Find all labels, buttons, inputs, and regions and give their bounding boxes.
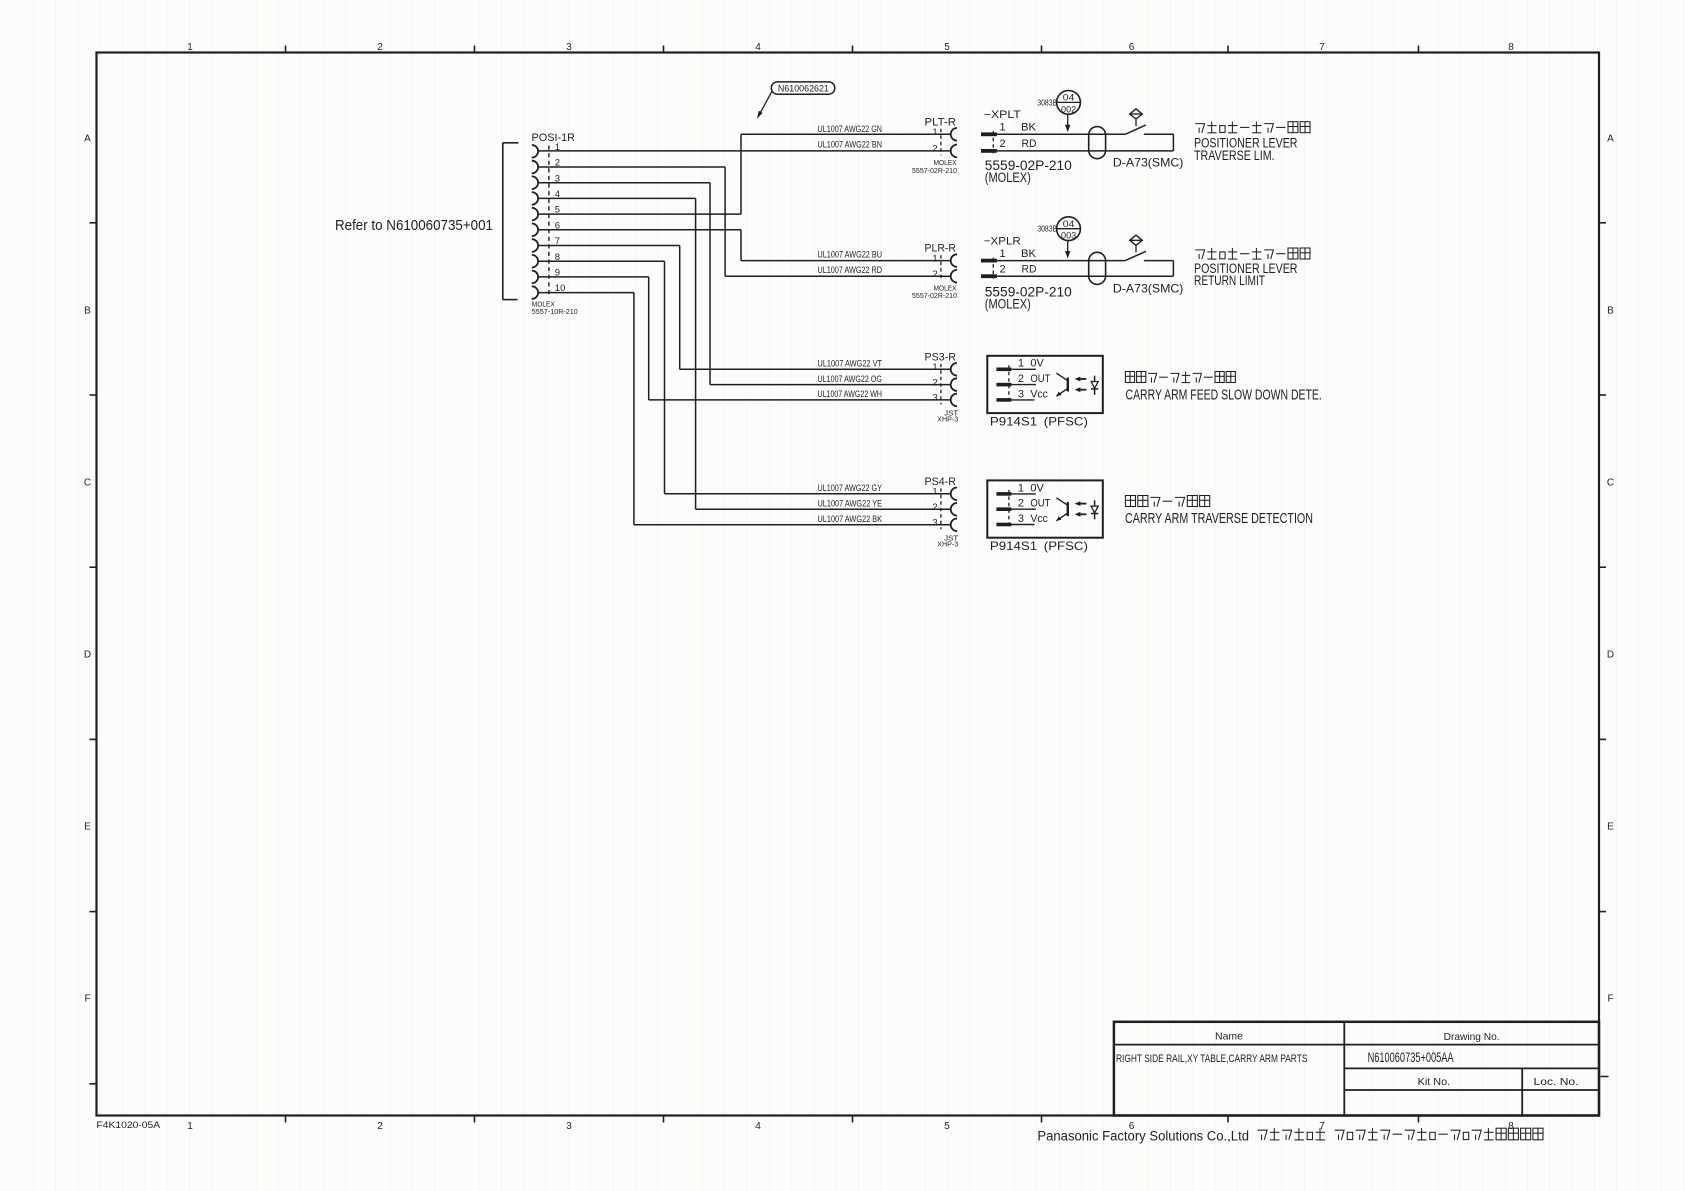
wire GN row to PLT-R pin1: [741, 133, 951, 135]
svg-text:−XPLT: −XPLT: [984, 109, 1021, 121]
sensor box outline: [987, 356, 1103, 413]
light arrows: [1075, 377, 1087, 393]
svg-text:F: F: [84, 994, 90, 1005]
wire OG row to PS3-R pin2: [710, 384, 951, 386]
svg-text:5: 5: [944, 42, 950, 53]
svg-text:XHP-3: XHP-3: [937, 417, 958, 424]
wire vertical pin2 to RD row: [724, 167, 726, 276]
wire vertical pin7 to VT row: [679, 246, 681, 370]
svg-text:TRAVERSE LIM.: TRAVERSE LIM.: [1194, 148, 1275, 163]
svg-text:B: B: [84, 306, 91, 317]
svg-text:(PFSC): (PFSC): [1044, 415, 1088, 429]
svg-text:4: 4: [755, 1121, 761, 1132]
−XPLT cable grommet oval: [1089, 127, 1106, 159]
svg-text:(PFSC): (PFSC): [1044, 539, 1088, 553]
connector PS4-R pin 2 contact: [951, 503, 957, 516]
svg-text:04: 04: [1063, 219, 1075, 230]
sensor pin labels 1 0V / 2 OUT / 3 Vcc: [1018, 482, 1051, 525]
−XPLR switch fixed side wire: [1144, 260, 1174, 262]
svg-text:Vcc: Vcc: [1030, 388, 1048, 400]
svg-text:PS3-R: PS3-R: [925, 351, 957, 363]
svg-text:A: A: [84, 134, 91, 145]
wire WH row to PS3-R pin3: [649, 399, 951, 401]
wire BU row to PLR-R pin1: [741, 260, 951, 262]
POSI-1R pin 1 contact: [532, 145, 538, 158]
svg-text:4: 4: [755, 42, 761, 53]
svg-text:3: 3: [1018, 388, 1024, 400]
svg-text:E: E: [84, 822, 91, 833]
svg-text:F: F: [1607, 994, 1613, 1005]
callout leader arrow: [760, 92, 772, 115]
svg-text:3: 3: [566, 1121, 572, 1132]
POSI-1R pin 7 contact: [532, 239, 538, 252]
connector PS4-R dashed line: [940, 488, 942, 529]
svg-text:F4K1020-05A: F4K1020-05A: [96, 1120, 160, 1130]
label carry arm feed slow down detection (Japanese): [1125, 371, 1235, 382]
label positioner lever traverse limit (Japanese): [1195, 122, 1310, 133]
svg-text:2: 2: [377, 42, 383, 53]
svg-text:P914S1: P914S1: [990, 415, 1038, 429]
svg-text:2: 2: [932, 144, 937, 155]
svg-text:N610062621: N610062621: [778, 84, 829, 95]
wire POSI pin4 stub: [538, 197, 696, 199]
svg-text:MOLEX: MOLEX: [934, 286, 957, 293]
svg-text:D: D: [84, 650, 91, 661]
svg-text:1: 1: [1000, 122, 1006, 134]
−XPLR switch contact lever: [1125, 251, 1146, 260]
phototransistor: [1056, 498, 1067, 521]
−XPLT pin labels 1 BK / 2 RD: [1000, 122, 1037, 151]
−XPLT balloon arrow: [1067, 114, 1069, 126]
svg-text:CARRY ARM FEED SLOW DOWN DETE.: CARRY ARM FEED SLOW DOWN DETE.: [1126, 388, 1322, 404]
−XPLT pin 2 male bar: [981, 149, 997, 153]
connector PLT-R pin 1 contact: [951, 128, 957, 141]
svg-text:UL1007 AWG22 RD: UL1007 AWG22 RD: [818, 265, 883, 275]
svg-text:Kit No.: Kit No.: [1418, 1076, 1451, 1088]
svg-text:04: 04: [1063, 93, 1075, 104]
svg-text:POSI-1R: POSI-1R: [532, 132, 576, 144]
POSI-1R pin 3 contact: [532, 176, 538, 189]
svg-text:5557-10R-210: 5557-10R-210: [532, 309, 578, 316]
wire YE row to PS4-R pin2: [696, 508, 951, 510]
svg-text:3: 3: [932, 518, 937, 529]
LED: [1091, 376, 1098, 395]
svg-text:D-A73(SMC): D-A73(SMC): [1113, 155, 1184, 169]
POSI-1R pin 6 contact: [532, 224, 538, 237]
−XPLR pin labels 1 BK / 2 RD: [1000, 248, 1037, 276]
svg-text:MOLEX: MOLEX: [532, 302, 555, 309]
−XPLR cable grommet oval: [1089, 252, 1106, 284]
svg-text:(MOLEX): (MOLEX): [985, 296, 1031, 311]
−XPLR pin 1 male bar: [981, 259, 997, 263]
connector PLT-R dashed line: [940, 129, 942, 156]
svg-text:−XPLR: −XPLR: [984, 236, 1021, 248]
connector PS3-R dashed line: [940, 364, 942, 405]
svg-text:RD: RD: [1022, 138, 1037, 150]
column ticks and numbers: [187, 42, 1514, 1132]
svg-text:8: 8: [1508, 42, 1514, 53]
svg-text:6: 6: [1129, 42, 1135, 53]
svg-text:Refer to N610060735+001: Refer to N610060735+001: [335, 217, 493, 234]
LED: [1091, 500, 1098, 519]
svg-text:A: A: [1607, 134, 1614, 145]
svg-text:Vcc: Vcc: [1030, 513, 1048, 525]
−XPLT wire RD: [997, 150, 1174, 152]
wire POSI pin3 stub: [538, 182, 710, 184]
bracket for POSI-1R: [503, 143, 519, 300]
title block outline: [1114, 1022, 1599, 1116]
svg-text:2: 2: [1018, 373, 1024, 385]
svg-text:(MOLEX): (MOLEX): [985, 170, 1031, 185]
svg-text:RETURN LIMIT: RETURN LIMIT: [1194, 273, 1265, 288]
−XPLR wire RD: [997, 275, 1174, 277]
svg-text:P914S1: P914S1: [990, 539, 1038, 553]
svg-text:0V: 0V: [1030, 358, 1044, 370]
svg-text:MOLEX: MOLEX: [934, 160, 957, 167]
light arrows: [1075, 501, 1087, 517]
−XPLT revision balloon 002: [1057, 91, 1081, 115]
wire POSI pin9 stub: [538, 276, 649, 278]
part number callout N610062621: [771, 82, 835, 94]
wire labels UL1007: [818, 124, 883, 524]
svg-text:2: 2: [932, 502, 937, 513]
svg-text:BK: BK: [1021, 248, 1037, 260]
svg-text:C: C: [84, 478, 91, 489]
connector PS4-R pin 3 contact: [951, 519, 957, 532]
svg-text:3083B: 3083B: [1037, 98, 1057, 107]
svg-text:1: 1: [1018, 358, 1024, 370]
title block texts: [0, 0, 1, 1]
svg-text:D-A73(SMC): D-A73(SMC): [1113, 282, 1184, 296]
−XPLT dashed line: [992, 131, 994, 153]
svg-text:CARRY ARM TRAVERSE DETECTION: CARRY ARM TRAVERSE DETECTION: [1125, 511, 1313, 527]
svg-text:UL1007 AWG22 BN: UL1007 AWG22 BN: [818, 140, 883, 150]
sensor pin labels 1 0V / 2 OUT / 3 Vcc: [1018, 358, 1051, 401]
svg-text:1: 1: [932, 127, 937, 138]
wire POSI pin2 stub: [538, 166, 725, 168]
svg-text:PLT-R: PLT-R: [925, 116, 957, 128]
svg-text:BK: BK: [1021, 122, 1037, 134]
svg-text:1: 1: [932, 362, 937, 373]
drawing border frame: [97, 53, 1600, 1116]
svg-text:3083B: 3083B: [1037, 225, 1057, 234]
svg-text:UL1007 AWG22 BK: UL1007 AWG22 BK: [818, 514, 883, 524]
row ticks and letters: [84, 134, 1614, 1084]
−XPLR balloon arrow: [1067, 241, 1069, 253]
connector PS3-R pin 3 contact: [951, 394, 957, 407]
wire POSI pin8 stub: [538, 260, 664, 262]
wire vertical pin9 to WH row: [648, 277, 650, 400]
connector PS3-R pin 1 contact: [951, 363, 957, 376]
wire RD row to PLR-R pin2: [725, 275, 951, 277]
−XPLR dashed line: [992, 258, 994, 279]
svg-text:UL1007 AWG22 WH: UL1007 AWG22 WH: [818, 389, 883, 399]
wire POSI pin7 stub: [538, 245, 680, 247]
svg-text:Panasonic Factory Solutions Co: Panasonic Factory Solutions Co.,Ltd: [1037, 1129, 1249, 1144]
svg-text:B: B: [1607, 306, 1614, 317]
svg-text:E: E: [1607, 822, 1614, 833]
svg-text:RIGHT SIDE RAIL,XY TABLE,CARRY: RIGHT SIDE RAIL,XY TABLE,CARRY ARM PARTS: [1116, 1053, 1307, 1065]
svg-text:2: 2: [377, 1121, 383, 1132]
wire vertical pin8 to GY row: [664, 261, 666, 494]
connector PS4-R pin 1 contact: [951, 488, 957, 501]
wire GY row to PS4-R pin1: [665, 493, 951, 495]
POSI-1R pin 5 contact: [532, 208, 538, 221]
svg-text:5557-02R-210: 5557-02R-210: [912, 168, 957, 175]
svg-text:2: 2: [1018, 498, 1024, 510]
svg-text:5557-02R-210: 5557-02R-210: [912, 293, 957, 300]
svg-text:PLR-R: PLR-R: [925, 243, 957, 255]
svg-text:UL1007 AWG22 VT: UL1007 AWG22 VT: [818, 359, 883, 369]
wire vertical pin3 to OG row: [709, 183, 711, 385]
−XPLT wire BK to switch: [997, 133, 1125, 135]
POSI-1R pin 8 contact: [532, 255, 538, 268]
svg-text:XHP-3: XHP-3: [937, 541, 958, 548]
svg-text:PS4-R: PS4-R: [925, 476, 957, 488]
−XPLT indicator diamond: [1130, 109, 1143, 119]
POSI-1R pin 4 contact: [532, 192, 538, 205]
POSI-1R dashed connector line: [548, 146, 550, 298]
svg-text:2: 2: [1000, 138, 1006, 150]
phototransistor: [1056, 373, 1067, 396]
svg-text:Loc. No.: Loc. No.: [1534, 1076, 1579, 1088]
−XPLR pin 2 male bar: [981, 274, 997, 278]
sensor pins male bars: [996, 490, 1036, 529]
svg-text:3: 3: [566, 42, 572, 53]
−XPLR wire BK to switch: [997, 260, 1125, 262]
svg-text:UL1007 AWG22 GN: UL1007 AWG22 GN: [818, 124, 883, 134]
−XPLT switch contact lever: [1125, 125, 1146, 134]
−XPLR revision balloon 003: [1057, 217, 1081, 241]
wire BK row to PS4-R pin3: [634, 524, 951, 526]
svg-text:Name: Name: [1215, 1031, 1243, 1043]
svg-text:7: 7: [1319, 42, 1325, 53]
connector PLR-R pin 1 contact: [951, 254, 957, 267]
POSI-1R pin 10 contact: [532, 286, 538, 299]
svg-text:1: 1: [187, 42, 193, 53]
svg-text:2: 2: [932, 269, 937, 280]
wire vertical pin4 to YE row: [695, 198, 697, 509]
sensor box outline: [987, 480, 1103, 537]
svg-text:1: 1: [187, 1121, 193, 1132]
svg-text:3: 3: [932, 393, 937, 404]
svg-text:3: 3: [1018, 513, 1024, 525]
−XPLR indicator diamond: [1130, 235, 1143, 245]
svg-text:N610060735+005AA: N610060735+005AA: [1368, 1049, 1454, 1065]
connector PLR-R dashed line: [940, 255, 942, 281]
svg-text:1: 1: [932, 487, 937, 498]
svg-text:C: C: [1607, 478, 1614, 489]
wire vertical pin5 to GN row: [740, 134, 742, 214]
svg-text:UL1007 AWG22 GY: UL1007 AWG22 GY: [818, 483, 883, 493]
sensor pins male bars: [996, 365, 1036, 404]
svg-text:UL1007 AWG22 YE: UL1007 AWG22 YE: [818, 499, 883, 509]
connector PLT-R pin 2 contact: [951, 145, 957, 158]
label positioner lever return limit (Japanese): [1195, 248, 1310, 259]
−XPLT pin 1 male bar: [981, 132, 997, 136]
connector PLR-R pin 2 contact: [951, 270, 957, 283]
svg-text:OUT: OUT: [1030, 498, 1050, 510]
svg-text:Drawing No.: Drawing No.: [1444, 1031, 1500, 1043]
wire VT row to PS3-R pin1: [680, 368, 951, 370]
wire vertical pin6 to BU row: [740, 230, 742, 261]
label carry arm traverse detection (Japanese): [1125, 496, 1209, 507]
title block inner lines: [1114, 1022, 1609, 1116]
svg-text:1: 1: [932, 253, 937, 264]
svg-text:0V: 0V: [1030, 482, 1044, 494]
svg-text:OUT: OUT: [1030, 373, 1050, 385]
svg-text:RD: RD: [1022, 264, 1037, 276]
−XPLT switch fixed side wire: [1144, 133, 1174, 135]
wire POSI pin6 stub: [538, 229, 741, 231]
POSI-1R pin 2 contact: [532, 161, 538, 174]
wire vertical pin10 to BK row: [633, 293, 635, 525]
connector PS3-R pin 2 contact: [951, 378, 957, 391]
svg-text:2: 2: [932, 377, 937, 388]
svg-text:1: 1: [1018, 482, 1024, 494]
wire POSI pin10 stub: [538, 292, 634, 294]
POSI-1R pin 9 contact: [532, 271, 538, 284]
svg-text:2: 2: [1000, 264, 1006, 276]
svg-text:003: 003: [1061, 231, 1076, 242]
wire POSI pin1 to PLT-R pin2 (BN): [538, 150, 951, 152]
svg-text:002: 002: [1061, 104, 1076, 115]
svg-text:5: 5: [944, 1121, 950, 1132]
svg-text:UL1007 AWG22 OG: UL1007 AWG22 OG: [818, 374, 883, 384]
wire POSI pin5 stub: [538, 213, 741, 215]
svg-text:UL1007 AWG22 BU: UL1007 AWG22 BU: [818, 249, 883, 259]
svg-text:1: 1: [1000, 248, 1006, 260]
svg-text:D: D: [1607, 650, 1614, 661]
